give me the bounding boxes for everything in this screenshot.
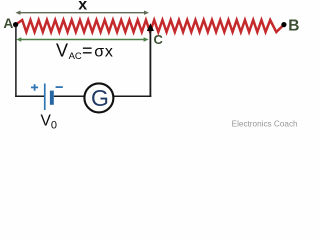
svg-text:C: C (154, 32, 164, 47)
svg-text:x: x (78, 0, 87, 14)
svg-text:VAC=σx: VAC=σx (56, 40, 113, 62)
svg-text:B: B (288, 17, 299, 34)
svg-text:A: A (3, 16, 13, 31)
svg-text:G: G (91, 85, 109, 111)
svg-text:Electronics Coach: Electronics Coach (232, 119, 298, 128)
